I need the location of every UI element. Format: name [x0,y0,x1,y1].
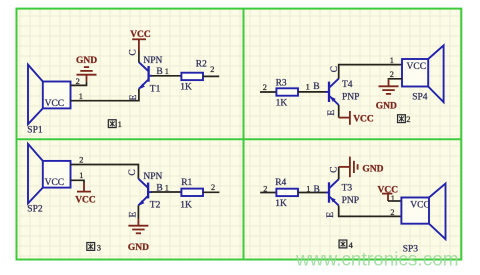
pin number 1 (T3 base) [306,185,310,194]
svg-text:1K: 1K [276,98,288,108]
label B (T4) [313,82,319,92]
speaker SP2 VCC field [45,178,65,188]
svg-text:VCC: VCC [45,178,65,188]
speaker SP1 [28,65,71,125]
label PNP (T3) [342,196,359,206]
wire R3 to T4 base [298,91,326,93]
pin number 2 (SP1) [76,77,80,86]
svg-text:T2: T2 [150,201,161,211]
label PNP (T4) [342,92,359,102]
wire T2 base to R1 [151,191,181,193]
svg-text:4: 4 [349,240,354,250]
wire T3 emitter to SP3 pin2 [339,206,402,217]
svg-text:E: E [129,95,139,101]
value 1K (R4) [275,199,287,209]
resistor R1 [181,189,203,196]
svg-text:2: 2 [210,65,214,74]
label R4 [275,178,286,188]
svg-text:C: C [329,167,339,173]
svg-text:1K: 1K [275,199,287,209]
label R2 [196,59,207,69]
label T3 [342,183,353,193]
wire SP4 pin2 to ground [389,79,403,80]
label R3 [276,78,287,88]
svg-text:VCC: VCC [410,201,430,211]
value 1K (R1) [180,200,192,210]
speaker SP1 VCC field [45,99,65,109]
label B (T1) [156,67,162,77]
svg-text:VCC: VCC [353,115,374,125]
svg-text:GND: GND [76,56,97,66]
label VCC (SP2 pin1) [75,196,96,206]
pin number 1 (SP2) [79,171,83,180]
svg-text:1: 1 [79,92,83,101]
pin number 2 (SP3) [390,208,394,217]
wire R4 to T3 base [298,192,326,194]
svg-text:E: E [326,212,336,218]
resistor R4 [276,189,298,196]
svg-text:PNP: PNP [342,92,359,102]
svg-text:VCC: VCC [45,99,65,109]
pin number 2 (R1) [211,183,215,192]
figure label 3 [87,243,101,253]
label T1 [150,85,161,95]
svg-text:1: 1 [165,67,169,76]
svg-text:E: E [327,110,337,116]
svg-text:1: 1 [118,119,122,129]
pin number 2 (R2) [210,65,214,74]
label NPN (T2) [143,172,162,182]
label GND (Q3) [128,243,149,253]
svg-text:VCC: VCC [130,30,151,40]
speaker SP3 [401,184,445,240]
label GND (Q4) [362,164,383,174]
wire T1 base to R2 [152,75,182,77]
svg-text:R4: R4 [275,178,286,188]
svg-text:2: 2 [263,83,267,92]
svg-text:NPN: NPN [143,56,162,66]
transistor T4 [325,79,338,105]
speaker SP4 [402,45,444,102]
svg-text:B: B [313,82,319,92]
svg-text:GND: GND [362,164,383,174]
svg-text:1: 1 [306,185,310,194]
pin number 1 (SP3) [391,194,395,203]
power VCC (SP2 pin1) [77,183,91,192]
wire SP1 pin1 to T1 emitter [71,89,139,101]
svg-text:2: 2 [76,77,80,86]
svg-text:GND: GND [128,243,149,253]
svg-text:SP2: SP2 [27,205,43,215]
power VCC (SP3 pin1) [382,194,392,201]
pin number 1 (SP4) [390,56,394,65]
label C (T2) [128,169,138,175]
pin number 2 (R3) [263,83,267,92]
wire T4 emitter down [338,105,340,118]
svg-text:SP4: SP4 [412,93,428,103]
label T4 [342,80,353,90]
svg-text:E: E [129,212,139,218]
label C (T4) [330,66,340,72]
svg-text:R2: R2 [196,59,207,69]
svg-text:1: 1 [390,56,394,65]
label C (T3) [329,167,339,173]
pin number 2 (SP4) [390,70,394,79]
svg-text:GND: GND [376,101,397,111]
svg-text:2: 2 [406,114,410,124]
svg-text:2: 2 [390,208,394,217]
speaker SP4 VCC field [407,62,427,72]
wire T4 collector to SP4 pin1 [339,65,402,79]
pin number 1 (T2 base) [165,183,169,192]
speaker SP2 [28,144,71,204]
label C (T1) [129,49,139,55]
ground (Q4, rotated) [339,157,358,178]
svg-text:C: C [128,169,138,175]
svg-text:VCC: VCC [75,196,96,206]
label B (T2) [156,183,162,193]
wire R1 to pin 2 [203,191,219,193]
power VCC (T1 collector) [132,39,146,51]
svg-text:B: B [314,185,320,195]
wire SP1 pin2 to ground [71,81,87,85]
wire pin 2 to R4 [260,192,276,194]
svg-text:NPN: NPN [143,172,162,182]
svg-text:1: 1 [306,83,310,92]
label E (T3) [326,212,336,218]
pin number 1 (SP1) [79,92,83,101]
wire pin 2 to R3 [260,91,276,93]
label VCC (Q1 top) [130,30,151,40]
svg-text:2: 2 [390,70,394,79]
wire T1 collector [138,51,140,62]
figure label 4 [339,240,354,250]
label NPN (T1) [143,56,162,66]
svg-text:2: 2 [79,156,83,165]
svg-text:R3: R3 [276,78,287,88]
svg-text:PNP: PNP [342,196,359,206]
svg-text:T4: T4 [342,80,353,90]
label SP3 [403,245,419,255]
pin number 2 (R4) [263,185,267,194]
svg-text:1: 1 [165,183,169,192]
label T2 [150,201,161,211]
svg-text:1K: 1K [180,200,192,210]
svg-text:3: 3 [97,243,101,253]
svg-text:VCC: VCC [407,62,427,72]
pin number 1 (T1 base) [165,67,169,76]
label VCC (SP3 pin1) [378,185,399,195]
wire T2 emitter to ground [137,205,139,219]
ground (Q1) [77,67,97,81]
svg-text:www.cntronics.com: www.cntronics.com [295,250,459,271]
svg-text:SP1: SP1 [27,126,43,136]
label SP4 [412,93,428,103]
figure label 2 [398,114,411,124]
svg-text:T3: T3 [342,183,353,193]
svg-text:VCC: VCC [378,185,399,195]
figure label 1 [108,119,121,129]
wire SP2 pin2 to T2 collector [71,165,139,179]
wire SP3 pin1 [388,200,401,202]
label E (T2) [129,212,139,218]
pin number 2 (SP2) [79,156,83,165]
label GND (Q2) [376,101,397,111]
ground (Q3) [128,219,148,233]
resistor R2 [181,73,203,80]
svg-text:1: 1 [79,171,83,180]
transistor T2 [138,179,151,206]
label R1 [181,178,192,188]
resistor R3 [276,88,298,95]
svg-text:1K: 1K [180,82,192,92]
ground (Q2) [379,80,399,94]
label VCC (T4 emitter) [353,115,374,125]
svg-text:2: 2 [211,183,215,192]
speaker SP3 VCC field [410,201,430,211]
svg-text:T1: T1 [150,85,161,95]
transistor T1 [139,62,152,89]
wire T3 collector to ground [338,167,340,180]
power VCC (T4 emitter) [339,111,350,125]
value 1K (R2) [180,82,192,92]
label B (T3) [314,185,320,195]
svg-text:C: C [129,49,139,55]
label SP1 [27,126,43,136]
transistor T3 [325,179,338,205]
label SP2 [27,205,43,215]
label E (T4) [327,110,337,116]
pin number 1 (T4 base) [306,83,310,92]
value 1K (R3) [276,98,288,108]
wire R2 to pin 2 [203,75,219,77]
svg-text:2: 2 [263,185,267,194]
svg-text:R1: R1 [181,178,192,188]
svg-text:1: 1 [391,194,395,203]
wire SP2 pin1 to VCC [71,180,85,182]
label GND (Q1) [76,56,97,66]
label E (T1) [129,95,139,101]
